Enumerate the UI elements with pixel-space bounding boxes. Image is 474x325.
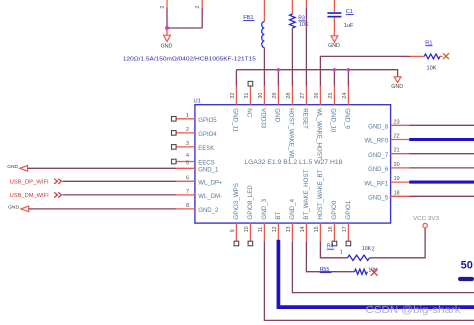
- pin name WL_DM-: [198, 194, 222, 200]
- pin number 23: [394, 119, 400, 125]
- pin number 15: [314, 226, 320, 232]
- note: ferrite bead part description: [123, 56, 256, 62]
- no-connect square on pin 10: [248, 241, 253, 246]
- pin name GND_7: [368, 153, 389, 159]
- pin 23 GND_8 stub: [391, 124, 410, 126]
- pin number 2 (right branch): [195, 6, 201, 9]
- pin 2 GPIO4 stub: [176, 132, 195, 134]
- svg-text:27: 27: [300, 93, 306, 99]
- watermark CSDN @big-shark: [366, 305, 462, 316]
- resistor R4: [348, 255, 370, 260]
- svg-text:28: 28: [286, 93, 292, 99]
- pin name WL_RF1: [365, 181, 389, 187]
- pin number 32: [230, 93, 236, 99]
- wire C1 to ground: [333, 18, 335, 36]
- junction dot on bus at x=278.4: [277, 68, 280, 71]
- junction dot: [165, 26, 169, 30]
- pin number 31: [244, 93, 250, 99]
- no-connect square on pin 9: [234, 241, 239, 246]
- ground arrow (pin 5): [20, 166, 28, 172]
- svg-text:GND_3: GND_3: [261, 198, 268, 219]
- svg-text:GND_5: GND_5: [368, 196, 389, 202]
- pin 4 EECS stub: [176, 161, 195, 163]
- pin 17 GPIO1 stub: [347, 223, 349, 241]
- wire bus to top pin at x=348.4: [347, 70, 349, 87]
- R4 pin number 2: [372, 246, 375, 252]
- pin name WL_WAKE_HOST: [315, 108, 322, 160]
- junction dot on bus at x=348.4: [347, 68, 350, 71]
- pin number 21: [394, 148, 400, 154]
- wire into resistor R3: [291, 0, 293, 14]
- svg-text:32: 32: [230, 93, 236, 99]
- svg-text:9: 9: [230, 229, 236, 232]
- svg-text:24: 24: [342, 93, 348, 99]
- svg-text:11: 11: [258, 227, 264, 233]
- pin 26 WL_WAKE_HOST stub: [319, 86, 321, 105]
- ground label GND (under C1): [328, 43, 340, 49]
- net label GND (pin 5): [7, 164, 18, 170]
- pin number 14: [300, 226, 306, 232]
- svg-text:GPIO1: GPIO1: [345, 200, 352, 219]
- off-sheet chevron USB_DM_WIFI: [54, 192, 61, 197]
- svg-text:GPIO8_LED: GPIO8_LED: [247, 185, 254, 220]
- pin name VDD33: [259, 108, 266, 129]
- pin number 24: [342, 93, 348, 99]
- thick RF trace BT (pin 12): [278, 240, 474, 307]
- svg-text:EESK: EESK: [198, 146, 214, 152]
- pin number 26: [314, 93, 320, 99]
- svg-text:GND: GND: [161, 43, 173, 49]
- svg-text:GND: GND: [273, 108, 280, 122]
- pin name GND_10: [329, 108, 336, 133]
- pin name GND_8: [368, 125, 389, 131]
- wire FB1 to pin 30: [263, 48, 265, 86]
- svg-text:LGA32 E1.9 B1.2 L1.5 W27: LGA32 E1.9 B1.2 L1.5 W27 H18: [244, 160, 343, 166]
- svg-text:17: 17: [342, 226, 348, 232]
- pin name GND_5: [368, 196, 389, 202]
- svg-text:18: 18: [394, 190, 400, 196]
- svg-text:GND: GND: [391, 84, 403, 90]
- pin number 5: [186, 161, 189, 167]
- pin number 7: [186, 189, 189, 195]
- wire stub into R1: [410, 55, 424, 57]
- pin number 2: [186, 127, 189, 133]
- wire pin 15 to resistor R4: [320, 241, 347, 257]
- pin number 25: [328, 93, 334, 99]
- pin number 17: [342, 226, 348, 232]
- wire GND_8 to sheet edge: [409, 124, 474, 126]
- pin name GPIO1: [345, 200, 352, 219]
- net label GND (pin 8): [8, 205, 19, 211]
- label R1: [425, 40, 432, 46]
- pin name WL_DP+: [198, 181, 223, 187]
- svg-text:WL_WAKE_HOST: WL_WAKE_HOST: [315, 108, 322, 160]
- no-connect square on pin 3: [172, 145, 177, 150]
- svg-text:BT_WAKE_HOST: BT_WAKE_HOST: [303, 169, 310, 219]
- svg-text:GND_1: GND_1: [198, 168, 219, 174]
- pin 18 GND_5 stub: [391, 195, 410, 197]
- no-connect square on pin 1: [172, 117, 177, 122]
- pin 12 BT stub: [277, 223, 279, 240]
- svg-text:2: 2: [186, 127, 189, 133]
- svg-text:2: 2: [372, 246, 375, 252]
- pin number 27: [300, 93, 306, 99]
- svg-text:GND_4: GND_4: [289, 198, 296, 219]
- svg-text:EECS: EECS: [198, 161, 214, 167]
- pin name GPIO0: [331, 200, 338, 219]
- svg-text:4: 4: [186, 153, 189, 159]
- annotation text 50 (ohm): [461, 259, 473, 271]
- U1 package text LGA32: [244, 160, 343, 166]
- svg-text:HOST_WAKE_WL: HOST_WAKE_WL: [287, 108, 294, 160]
- svg-text:10K: 10K: [427, 66, 437, 72]
- pin name EESK: [198, 146, 214, 152]
- wire GND_6 to sheet edge: [409, 167, 474, 169]
- pin name GND: [273, 108, 280, 122]
- svg-text:3: 3: [186, 141, 189, 147]
- pin name BT_WAKE_HOST: [303, 169, 310, 219]
- wire R4 to VCC 3V3: [370, 228, 426, 258]
- thick RF trace WL_RF0: [409, 138, 474, 141]
- svg-text:10: 10: [244, 226, 250, 232]
- R4 pin number 1: [340, 250, 343, 256]
- svg-text:GND_9: GND_9: [343, 108, 350, 129]
- off-sheet chevron USB_DP_WIFI: [54, 179, 61, 184]
- svg-text:10K: 10K: [299, 22, 309, 28]
- svg-text:GND_6: GND_6: [368, 167, 389, 173]
- svg-text:19: 19: [394, 176, 400, 182]
- svg-text:R4: R4: [327, 244, 334, 250]
- svg-text:GND_11: GND_11: [231, 108, 238, 132]
- pin 21 GND_7 stub: [391, 153, 410, 155]
- ground symbol (top left): [164, 35, 171, 41]
- ground arrow (pin 8): [21, 206, 29, 212]
- wire from pin 2 of off-sheet part, left branch: [166, 0, 168, 28]
- pin number 4: [186, 153, 189, 159]
- pin number 20: [394, 162, 400, 168]
- pin number 18: [394, 190, 400, 196]
- svg-text:WL_RF0: WL_RF0: [365, 139, 389, 145]
- svg-text:23: 23: [394, 119, 400, 125]
- no-connect square on pin 31: [248, 81, 253, 86]
- wire joining the two branches: [167, 27, 202, 29]
- pin 6 WL_DP+ stub: [176, 180, 195, 182]
- net label USB_DP_WIFI: [10, 179, 49, 185]
- value 10K of R4: [362, 246, 372, 252]
- svg-text:5: 5: [186, 161, 189, 167]
- pin 9 GPIO3_WPS stub: [235, 223, 237, 241]
- svg-text:2: 2: [160, 6, 166, 9]
- pin number 10: [244, 226, 250, 232]
- svg-text:1uF: 1uF: [344, 23, 354, 29]
- svg-text:16: 16: [328, 226, 334, 232]
- svg-text:GND_10: GND_10: [329, 108, 336, 133]
- pin 22 WL_RF0 stub: [391, 139, 410, 141]
- pin name GPIO5: [198, 118, 217, 124]
- wire USB_DM_WIFI to pin 7: [63, 194, 177, 196]
- svg-text:USB_DP_WIFI: USB_DP_WIFI: [10, 179, 49, 185]
- power label VCC 3V3: [413, 216, 439, 222]
- pin number 29: [272, 93, 278, 99]
- value 10K of R3: [299, 22, 309, 28]
- svg-text:31: 31: [244, 93, 250, 99]
- wire R3 to pin 28: [291, 28, 293, 86]
- pin 27 RESET stub: [305, 86, 307, 105]
- ferrite bead FB1 (inductor symbol): [262, 22, 265, 48]
- svg-text:8: 8: [186, 203, 189, 209]
- resistor R55: [355, 269, 368, 274]
- svg-text:GPIO3_WPS: GPIO3_WPS: [233, 183, 240, 219]
- no-connect square on pin 4: [172, 159, 177, 164]
- wire GND_5 to sheet edge: [409, 195, 474, 197]
- pin 11 GND_3 stub: [263, 223, 265, 241]
- label R3: [298, 16, 305, 22]
- pin 28 HOST_WAKE_WL stub: [291, 86, 293, 105]
- svg-text:GND: GND: [8, 205, 19, 211]
- svg-text:GPIO5: GPIO5: [198, 118, 217, 124]
- pin number 2 (left branch): [160, 6, 166, 9]
- op-amp U1 body (module outline): [195, 105, 391, 223]
- pin name RESET: [301, 108, 308, 129]
- svg-text:GND: GND: [328, 43, 340, 49]
- wire GND_7 to sheet edge: [409, 153, 474, 155]
- svg-text:CSDN @big-shark: CSDN @big-shark: [366, 305, 462, 316]
- value 10K of R1: [427, 66, 437, 72]
- pin name NC: [245, 108, 252, 117]
- svg-text:14: 14: [300, 226, 306, 232]
- wire USB_DP_WIFI to pin 6: [63, 180, 177, 182]
- pin name GPIO8_LED: [247, 185, 254, 220]
- wire to ground: [166, 28, 168, 35]
- pin 7 WL_DM- stub: [176, 194, 195, 196]
- svg-text:VCC 3V3: VCC 3V3: [413, 216, 439, 222]
- label C1: [346, 9, 354, 15]
- wire GND to pin 5: [28, 167, 177, 169]
- pin name GPIO3_WPS: [233, 183, 240, 219]
- power symbol VCC 3V3: [423, 223, 427, 227]
- svg-text:15: 15: [314, 226, 320, 232]
- svg-text:HOST_WAKE_BT: HOST_WAKE_BT: [317, 169, 324, 219]
- pin 10 GPIO8_LED stub: [249, 223, 251, 241]
- pin number 13: [286, 226, 292, 232]
- label R4: [327, 244, 334, 250]
- wire GND_4 (pin 13) to sheet edge: [292, 241, 474, 292]
- no-connect square on pin 17: [346, 241, 351, 246]
- svg-text:GPIO0: GPIO0: [331, 200, 338, 219]
- capacitor C1: [327, 12, 341, 17]
- pin 25 GND_10 stub: [333, 86, 335, 105]
- svg-text:R55: R55: [320, 267, 330, 273]
- svg-text:20: 20: [394, 162, 400, 168]
- wire R1 to no-connect: [440, 55, 443, 57]
- pin number 28: [286, 93, 292, 99]
- pin 15 HOST_WAKE_BT stub: [319, 223, 321, 241]
- wire into capacitor C1: [333, 0, 335, 12]
- svg-text:WL_DP+: WL_DP+: [198, 181, 223, 187]
- pin 13 GND_4 stub: [291, 223, 293, 241]
- svg-text:2: 2: [195, 6, 201, 9]
- pin name GND_4: [289, 198, 296, 219]
- svg-text:26: 26: [314, 93, 320, 99]
- svg-text:12: 12: [272, 226, 278, 232]
- pin number 12: [272, 226, 278, 232]
- svg-text:25: 25: [328, 93, 334, 99]
- svg-text:21: 21: [394, 148, 400, 154]
- junction dot on bus at x=334.4: [333, 68, 336, 71]
- pin number 19: [394, 176, 400, 182]
- svg-text:VDD33: VDD33: [259, 108, 266, 129]
- pin number 9: [230, 229, 236, 232]
- pin name GND_9: [343, 108, 350, 129]
- pin name GPIO4: [198, 132, 217, 138]
- no-connect square on pin 16: [332, 241, 337, 246]
- pin 30 VDD33 stub: [263, 86, 265, 105]
- pin name HOST_WAKE_WL: [287, 108, 294, 160]
- wire pin 14 to resistor R55: [306, 241, 354, 271]
- svg-text:GND_7: GND_7: [368, 153, 389, 159]
- svg-text:30: 30: [258, 93, 264, 99]
- pin 31 NC stub: [249, 86, 251, 105]
- svg-text:1: 1: [340, 250, 343, 256]
- label R55: [320, 267, 332, 273]
- pin number 6: [186, 175, 189, 181]
- svg-text:GPIO4: GPIO4: [198, 132, 217, 138]
- ground label GND (bus): [391, 84, 403, 90]
- svg-text:GND_2: GND_2: [198, 208, 219, 214]
- pin name HOST_WAKE_BT: [317, 169, 324, 219]
- label U1: [194, 99, 201, 105]
- svg-text:GND_8: GND_8: [368, 125, 389, 131]
- pin name EECS: [198, 161, 214, 167]
- ground label GND: [161, 43, 173, 49]
- pin number 3: [186, 141, 189, 147]
- pin 5 GND_1 stub: [176, 167, 195, 169]
- svg-text:13: 13: [286, 226, 292, 232]
- pin name GND_3: [261, 198, 268, 219]
- pin 20 GND_6 stub: [391, 167, 410, 169]
- pin 8 GND_2 stub: [176, 208, 195, 210]
- svg-text:22: 22: [394, 134, 400, 140]
- svg-text:50: 50: [461, 259, 473, 271]
- ground symbol (bus): [394, 77, 401, 83]
- pin name BT: [275, 211, 282, 219]
- pin 16 GPIO0 stub: [333, 223, 335, 241]
- pin 14 BT_WAKE_HOST stub: [305, 223, 307, 241]
- pin number 11: [258, 227, 264, 233]
- pin 19 WL_RF1 stub: [391, 181, 410, 183]
- no-connect square on pin 2: [172, 131, 177, 136]
- annotation 50-ohm trace sample bar: [458, 277, 474, 281]
- pin number 1: [186, 113, 189, 119]
- wire pin 26 to resistor R1: [320, 56, 410, 86]
- pin number 22: [394, 134, 400, 140]
- svg-text:RESET: RESET: [301, 108, 308, 129]
- pin 1 GPIO5 stub: [176, 118, 195, 120]
- pin name GND_1: [198, 168, 219, 174]
- pin name GND_2: [198, 208, 219, 214]
- svg-text:WL_RF1: WL_RF1: [365, 181, 389, 187]
- svg-text:USB_DM_WIFI: USB_DM_WIFI: [10, 193, 49, 199]
- net label USB_DM_WIFI: [10, 193, 49, 199]
- label FB1: [243, 15, 254, 21]
- svg-text:1: 1: [186, 113, 189, 119]
- pin 29 GND stub: [277, 86, 279, 105]
- pin number 8: [186, 203, 189, 209]
- no-connect X at R55: [371, 269, 378, 276]
- value 10K of R55: [368, 267, 378, 273]
- pin number 30: [258, 93, 264, 99]
- thick RF trace WL_RF1: [409, 181, 474, 184]
- pin 32 GND_11 stub: [235, 86, 237, 105]
- svg-text:GND: GND: [7, 164, 18, 170]
- wire RESET to pin 27: [305, 0, 307, 86]
- wire GND to pin 8: [29, 208, 177, 210]
- pin name GND_11: [231, 108, 238, 132]
- svg-text:10K: 10K: [362, 246, 372, 252]
- svg-text:6: 6: [186, 175, 189, 181]
- wire GND_3 (pin 11) to sheet edge: [264, 241, 474, 320]
- resistor R3: [290, 14, 296, 28]
- wire bus to top pin at x=236.4: [235, 70, 237, 87]
- wire from pin 2 of off-sheet part, right branch: [201, 0, 203, 28]
- svg-text:WL_DM-: WL_DM-: [198, 194, 222, 200]
- svg-text:7: 7: [186, 189, 189, 195]
- wire bus to top pin at x=334.4: [333, 70, 335, 87]
- svg-text:120Ω/1.5A/150mΩ/0402/HCB1005KF: 120Ω/1.5A/150mΩ/0402/HCB1005KF-121T15: [123, 56, 256, 62]
- pin name WL_RF0: [365, 139, 389, 145]
- wire bus to top pin at x=278.4: [277, 70, 279, 87]
- svg-text:29: 29: [272, 93, 278, 99]
- svg-text:U1: U1: [194, 99, 201, 105]
- pin number 16: [328, 226, 334, 232]
- pin name GND_6: [368, 167, 389, 173]
- svg-text:BT: BT: [275, 211, 282, 219]
- no-connect X at R1: [443, 53, 449, 59]
- value 1uF of C1: [344, 23, 354, 29]
- ground symbol (under C1): [331, 36, 338, 42]
- ground bus wire above U1: [236, 70, 397, 77]
- resistor R1: [424, 54, 440, 59]
- pin 3 EESK stub: [176, 146, 195, 148]
- pin 24 GND_9 stub: [347, 86, 349, 105]
- svg-text:NC: NC: [245, 108, 252, 117]
- wire into ferrite bead FB1: [263, 0, 265, 22]
